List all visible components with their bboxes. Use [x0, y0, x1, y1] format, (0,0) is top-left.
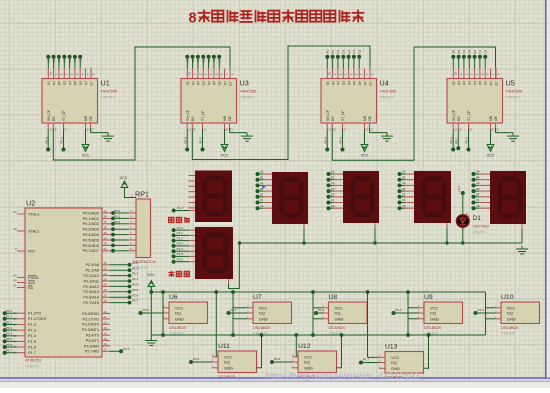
- svg-text:Q5: Q5: [73, 81, 77, 85]
- svg-text:P0.5/AD5: P0.5/AD5: [83, 238, 99, 242]
- svg-text:P2.3: P2.3: [132, 277, 139, 281]
- svg-text:P1.2: P1.2: [177, 236, 184, 240]
- svg-text:P1.0: P1.0: [6, 309, 13, 313]
- svg-text:74HC595: 74HC595: [506, 89, 524, 94]
- svg-text:P0.0: P0.0: [114, 209, 121, 213]
- svg-text:33: 33: [104, 242, 108, 246]
- svg-text:C3: C3: [336, 49, 340, 53]
- svg-text:A1: A1: [260, 170, 264, 174]
- svg-text:GND: GND: [507, 316, 516, 321]
- svg-text:MR: MR: [363, 115, 367, 121]
- svg-text:B1: B1: [260, 175, 264, 179]
- svg-text:25: 25: [104, 283, 108, 287]
- svg-text:15: 15: [454, 72, 458, 76]
- svg-text:GND: GND: [335, 316, 344, 321]
- svg-text:LED-RED: LED-RED: [473, 225, 490, 229]
- svg-text:P2.7/A15: P2.7/A15: [83, 301, 99, 305]
- svg-text:P1.4: P1.4: [478, 308, 485, 312]
- svg-text:DS18B20: DS18B20: [329, 325, 347, 330]
- svg-text:G3: G3: [357, 49, 361, 53]
- svg-text:DQ: DQ: [430, 311, 436, 316]
- svg-text:U4: U4: [380, 79, 389, 88]
- svg-text:P3.1/TXD: P3.1/TXD: [83, 317, 100, 321]
- svg-text:P0.1: P0.1: [114, 215, 121, 219]
- svg-text:P0.4/AD4: P0.4/AD4: [83, 233, 99, 237]
- svg-text:DS18B20: DS18B20: [169, 325, 187, 330]
- svg-text:C1: C1: [260, 181, 264, 185]
- svg-text:P0.0: P0.0: [449, 137, 453, 144]
- svg-text:U13: U13: [385, 344, 398, 351]
- svg-text:RP1: RP1: [135, 190, 149, 199]
- svg-text:Q7': Q7': [494, 81, 498, 86]
- svg-text:P1.6: P1.6: [274, 357, 281, 361]
- svg-text:G1: G1: [260, 204, 264, 208]
- svg-text:B1: B1: [52, 58, 56, 62]
- svg-text:C2: C2: [331, 181, 335, 185]
- svg-text:Q7: Q7: [223, 81, 227, 85]
- svg-text:8: 8: [189, 11, 197, 27]
- svg-text:SH_CP: SH_CP: [326, 109, 330, 121]
- svg-text:U3: U3: [240, 79, 249, 88]
- svg-text:ALE: ALE: [28, 281, 36, 285]
- svg-text:32: 32: [104, 247, 108, 251]
- svg-text:10: 10: [104, 310, 108, 314]
- svg-text:Q7: Q7: [84, 81, 88, 85]
- svg-text:D1: D1: [473, 215, 482, 222]
- svg-text:U7: U7: [253, 294, 262, 301]
- svg-text:U8: U8: [329, 294, 338, 301]
- svg-text:14: 14: [459, 128, 463, 131]
- svg-text:15: 15: [104, 337, 108, 341]
- svg-text:Q2: Q2: [462, 81, 466, 85]
- svg-text:13: 13: [496, 128, 500, 131]
- svg-text:D4: D4: [476, 187, 480, 191]
- svg-text:24: 24: [104, 277, 108, 281]
- svg-text:<TEXT>: <TEXT>: [240, 95, 256, 100]
- svg-text:DS: DS: [331, 116, 335, 121]
- svg-text:Q4: Q4: [473, 81, 477, 85]
- svg-text:P1.0: P1.0: [177, 226, 184, 230]
- svg-text:27: 27: [104, 294, 108, 298]
- svg-text:36: 36: [104, 226, 108, 230]
- svg-text:10: 10: [225, 128, 229, 131]
- svg-text:P1.6: P1.6: [28, 345, 36, 349]
- svg-text:DS18B20: DS18B20: [501, 325, 519, 330]
- svg-text:F4: F4: [478, 50, 482, 54]
- svg-text:11: 11: [327, 128, 331, 131]
- svg-text:P2.5/A13: P2.5/A13: [83, 290, 99, 294]
- svg-text:12: 12: [64, 128, 68, 131]
- svg-text:VCC: VCC: [487, 154, 495, 158]
- svg-text:U6: U6: [169, 294, 178, 301]
- svg-text:C4: C4: [462, 49, 466, 53]
- svg-text:D3: D3: [342, 49, 346, 53]
- svg-text:P1.4: P1.4: [6, 332, 13, 336]
- svg-text:74HC595: 74HC595: [380, 89, 398, 94]
- svg-text:P1.5: P1.5: [193, 357, 200, 361]
- svg-text:30: 30: [13, 279, 17, 283]
- svg-text:D1: D1: [63, 58, 67, 62]
- svg-text:P0.2: P0.2: [60, 137, 64, 144]
- svg-text:U9: U9: [424, 294, 433, 301]
- svg-text:26: 26: [104, 288, 108, 292]
- svg-text:ST_CP: ST_CP: [341, 110, 345, 121]
- svg-text:AT89C52: AT89C52: [25, 358, 42, 363]
- svg-text:23: 23: [104, 272, 108, 276]
- svg-text:Q7: Q7: [489, 81, 493, 85]
- svg-text:P1.5: P1.5: [28, 340, 36, 344]
- svg-text:<TEXT>: <TEXT>: [133, 265, 149, 270]
- svg-text:P2.6/A14: P2.6/A14: [83, 296, 99, 300]
- svg-text:C1: C1: [57, 58, 61, 62]
- svg-text:Q5: Q5: [478, 81, 482, 85]
- svg-text:XTAL2: XTAL2: [28, 229, 39, 233]
- svg-text:B2: B2: [191, 58, 195, 62]
- svg-text:Q6: Q6: [358, 81, 362, 85]
- svg-text:18: 18: [13, 227, 17, 231]
- svg-text:P0.7/AD7: P0.7/AD7: [83, 249, 99, 253]
- svg-text:VCC: VCC: [120, 176, 128, 180]
- svg-text:MR: MR: [84, 115, 88, 121]
- svg-text:P2.4/A12: P2.4/A12: [83, 285, 99, 289]
- svg-text:12: 12: [104, 321, 108, 325]
- svg-text:VCC: VCC: [361, 154, 369, 158]
- svg-text:GND: GND: [304, 365, 313, 370]
- svg-text:<TEXT>: <TEXT>: [169, 331, 185, 336]
- svg-text:E1: E1: [68, 58, 72, 62]
- svg-text:P1.7: P1.7: [28, 351, 36, 355]
- svg-text:P2.1/A9: P2.1/A9: [85, 269, 99, 273]
- svg-text:A4: A4: [476, 170, 480, 174]
- svg-text:EA: EA: [28, 286, 34, 290]
- svg-text:Q4: Q4: [207, 81, 211, 85]
- svg-text:<TEXT>: <TEXT>: [506, 95, 522, 100]
- svg-text:D2: D2: [202, 58, 206, 62]
- svg-text:31: 31: [13, 284, 17, 288]
- svg-text:15: 15: [188, 72, 192, 76]
- svg-text:14: 14: [104, 331, 108, 335]
- svg-text:P1.7: P1.7: [363, 357, 370, 361]
- svg-text:D4: D4: [468, 49, 472, 53]
- svg-text:E2: E2: [331, 193, 335, 197]
- svg-text:P1.0: P1.0: [143, 308, 150, 312]
- svg-text:C4: C4: [476, 181, 480, 185]
- svg-text:P1.0/T2: P1.0/T2: [28, 312, 41, 316]
- svg-text:10: 10: [365, 128, 369, 131]
- svg-text:P1.5: P1.5: [6, 337, 13, 341]
- svg-text:GND: GND: [430, 316, 439, 321]
- svg-text:<TEXT>: <TEXT>: [380, 95, 396, 100]
- svg-text:https:⁄⁄blog.csdn.net⁄weixin_4: https:⁄⁄blog.csdn.net⁄weixin_44212493: [266, 371, 419, 381]
- svg-text:P0.6/AD6: P0.6/AD6: [83, 244, 99, 248]
- svg-text:74HC595: 74HC595: [101, 89, 119, 94]
- svg-text:DQ: DQ: [175, 311, 181, 316]
- svg-text:DQ: DQ: [335, 311, 341, 316]
- svg-text:17: 17: [104, 348, 108, 352]
- svg-text:F1: F1: [73, 58, 77, 62]
- svg-text:11: 11: [104, 315, 107, 319]
- svg-text:E3: E3: [402, 193, 406, 197]
- svg-text:29: 29: [13, 274, 17, 278]
- svg-text:P1.2: P1.2: [6, 320, 13, 324]
- svg-text:16: 16: [104, 342, 108, 346]
- svg-text:14: 14: [193, 128, 197, 131]
- svg-text:P0.2: P0.2: [339, 137, 343, 144]
- svg-text:E4: E4: [476, 193, 480, 197]
- svg-text:P0.1: P0.1: [455, 137, 459, 144]
- svg-text:Q3: Q3: [202, 81, 206, 85]
- svg-text:12: 12: [203, 128, 207, 131]
- svg-text:P3.2/INT0: P3.2/INT0: [82, 323, 99, 327]
- svg-text:E2: E2: [207, 58, 211, 62]
- svg-text:GND: GND: [224, 365, 233, 370]
- svg-text:P2.5: P2.5: [132, 288, 139, 292]
- svg-text:Q7: Q7: [363, 81, 367, 85]
- svg-text:DQ: DQ: [507, 311, 513, 316]
- svg-text:ST_CP: ST_CP: [467, 110, 471, 121]
- svg-text:OE: OE: [89, 115, 93, 121]
- svg-text:Q6: Q6: [218, 81, 222, 85]
- svg-text:SH_CP: SH_CP: [47, 109, 51, 121]
- svg-text:Q0: Q0: [452, 81, 456, 85]
- svg-text:P2.7: P2.7: [132, 299, 139, 303]
- svg-text:Q0: Q0: [47, 81, 51, 85]
- svg-text:VCC: VCC: [221, 154, 229, 158]
- svg-text:VCC: VCC: [147, 273, 155, 277]
- svg-text:Q2: Q2: [196, 81, 200, 85]
- svg-text:PSEN: PSEN: [28, 276, 39, 280]
- svg-text:<TEXT>: <TEXT>: [473, 231, 488, 235]
- svg-text:G1: G1: [78, 58, 82, 62]
- svg-text:A2: A2: [331, 170, 335, 174]
- svg-text:E4: E4: [473, 50, 477, 54]
- svg-text:11: 11: [453, 128, 457, 131]
- svg-text:C3: C3: [402, 181, 406, 185]
- svg-text:P0.1/AD1: P0.1/AD1: [83, 217, 99, 221]
- svg-text:Q7': Q7': [368, 81, 372, 86]
- svg-text:22: 22: [104, 267, 108, 271]
- svg-text:B3: B3: [331, 50, 335, 54]
- svg-text:11: 11: [187, 128, 191, 131]
- svg-text:G4: G4: [483, 49, 487, 53]
- svg-text:DS18B20: DS18B20: [253, 325, 271, 330]
- svg-text:P2.3/A11: P2.3/A11: [84, 279, 99, 283]
- svg-text:P3.7: P3.7: [457, 185, 461, 191]
- svg-text:19: 19: [13, 210, 17, 214]
- svg-text:P1.6: P1.6: [177, 257, 184, 261]
- svg-text:Q7': Q7': [228, 81, 232, 86]
- svg-text:37: 37: [104, 220, 108, 224]
- svg-text:RST: RST: [28, 249, 36, 253]
- svg-text:B2: B2: [331, 175, 335, 179]
- svg-text:Q7': Q7': [89, 81, 93, 86]
- svg-text:13: 13: [370, 128, 374, 131]
- svg-text:U10: U10: [501, 294, 514, 301]
- svg-text:U5: U5: [506, 79, 515, 88]
- svg-text:P0.3/AD3: P0.3/AD3: [83, 228, 99, 232]
- svg-text:13: 13: [104, 326, 108, 330]
- svg-text:Q4: Q4: [347, 81, 351, 85]
- svg-text:D3: D3: [402, 187, 406, 191]
- svg-text:DS: DS: [52, 116, 56, 121]
- svg-text:P2.4: P2.4: [132, 283, 139, 287]
- svg-text:Q4: Q4: [68, 81, 72, 85]
- svg-text:15: 15: [49, 72, 53, 76]
- svg-text:<TEXT>: <TEXT>: [101, 95, 117, 100]
- svg-text:38: 38: [104, 215, 108, 219]
- svg-text:DS18B20: DS18B20: [424, 325, 442, 330]
- svg-text:35: 35: [104, 231, 108, 235]
- svg-text:Q0: Q0: [326, 81, 330, 85]
- svg-text:14: 14: [54, 128, 58, 131]
- svg-text:11: 11: [48, 128, 52, 131]
- svg-text:DS: DS: [457, 116, 461, 121]
- svg-text:<TEXT>: <TEXT>: [424, 331, 440, 336]
- svg-text:P1.6: P1.6: [6, 343, 13, 347]
- svg-text:RESPACK-8: RESPACK-8: [133, 259, 156, 264]
- svg-text:13: 13: [230, 128, 234, 131]
- svg-text:A1: A1: [47, 58, 51, 62]
- svg-text:XTAL1: XTAL1: [28, 212, 39, 216]
- svg-text:OE: OE: [228, 115, 232, 121]
- svg-text:C2: C2: [196, 58, 200, 62]
- svg-text:Q2: Q2: [57, 81, 61, 85]
- svg-text:E3: E3: [347, 50, 351, 54]
- svg-text:Q3: Q3: [342, 81, 346, 85]
- svg-text:DQ: DQ: [304, 360, 310, 365]
- svg-text:10: 10: [86, 128, 90, 131]
- svg-text:P1.4: P1.4: [177, 247, 184, 251]
- svg-text:SH_CP: SH_CP: [452, 109, 456, 121]
- svg-text:P1.1: P1.1: [231, 308, 238, 312]
- svg-text:P1.7: P1.7: [177, 206, 184, 210]
- svg-text:F2: F2: [331, 198, 335, 202]
- svg-text:SH_CP: SH_CP: [186, 109, 190, 121]
- svg-text:DQ: DQ: [259, 311, 265, 316]
- svg-text:F4: F4: [476, 198, 480, 202]
- svg-text:U12: U12: [298, 343, 311, 350]
- svg-text:12: 12: [469, 128, 473, 131]
- svg-text:OE: OE: [368, 115, 372, 121]
- svg-text:G2: G2: [217, 58, 221, 62]
- svg-text:10: 10: [491, 128, 495, 131]
- svg-text:P3.5/T1: P3.5/T1: [86, 339, 99, 343]
- svg-text:A4: A4: [452, 50, 456, 54]
- svg-text:Q6: Q6: [484, 81, 488, 85]
- svg-text:F2: F2: [212, 58, 216, 62]
- svg-text:P1.3: P1.3: [396, 308, 403, 312]
- svg-text:G2: G2: [331, 204, 335, 208]
- svg-text:P0.0/AD0: P0.0/AD0: [83, 211, 99, 215]
- svg-text:Q1: Q1: [331, 81, 335, 85]
- svg-text:P0.0: P0.0: [183, 137, 187, 144]
- svg-text:G3: G3: [402, 204, 406, 208]
- svg-text:Q1: Q1: [52, 81, 56, 85]
- svg-text:P1.3: P1.3: [6, 326, 13, 330]
- svg-text:Q0: Q0: [186, 81, 190, 85]
- svg-text:DQ: DQ: [224, 360, 230, 365]
- svg-text:P1.2: P1.2: [318, 308, 325, 312]
- svg-text:P3.7: P3.7: [123, 347, 130, 351]
- svg-text:P3.6/WR: P3.6/WR: [84, 344, 99, 348]
- svg-text:U2: U2: [26, 199, 35, 208]
- svg-text:A3: A3: [326, 50, 330, 54]
- svg-text:Q3: Q3: [468, 81, 472, 85]
- svg-text:<TEXT>: <TEXT>: [501, 331, 517, 336]
- svg-text:P1.4: P1.4: [28, 334, 36, 338]
- svg-text:DQ: DQ: [391, 360, 397, 365]
- svg-text:P0.2/AD2: P0.2/AD2: [83, 222, 99, 226]
- svg-text:B3: B3: [402, 175, 406, 179]
- svg-text:P3.4/T0: P3.4/T0: [86, 334, 99, 338]
- svg-text:U11: U11: [218, 343, 230, 350]
- svg-text:28: 28: [104, 299, 108, 303]
- svg-text:OE: OE: [494, 115, 498, 121]
- svg-text:P0.2: P0.2: [114, 220, 121, 224]
- svg-text:DS: DS: [191, 116, 195, 121]
- svg-text:Q5: Q5: [212, 81, 216, 85]
- svg-text:Q3: Q3: [63, 81, 67, 85]
- svg-text:Q1: Q1: [457, 81, 461, 85]
- svg-text:P1.1/T2EX: P1.1/T2EX: [28, 317, 47, 321]
- svg-text:A3: A3: [402, 170, 406, 174]
- svg-text:Q2: Q2: [336, 81, 340, 85]
- svg-text:P1.7: P1.7: [6, 349, 13, 353]
- svg-text:MR: MR: [489, 115, 493, 121]
- svg-text:A2: A2: [186, 58, 190, 62]
- svg-text:E1: E1: [260, 193, 264, 197]
- svg-text:G4: G4: [476, 204, 480, 208]
- svg-text:P1.1: P1.1: [6, 315, 13, 319]
- svg-text:MR: MR: [223, 115, 227, 121]
- svg-text:B4: B4: [457, 50, 461, 54]
- svg-text:P2.2: P2.2: [132, 272, 139, 276]
- svg-text:P0.2: P0.2: [199, 137, 203, 144]
- svg-text:P0.0: P0.0: [44, 137, 48, 144]
- svg-text:P1.3: P1.3: [28, 329, 36, 333]
- svg-text:P3.0/RXD: P3.0/RXD: [82, 312, 99, 316]
- svg-text:VCC: VCC: [82, 154, 90, 158]
- svg-text:D2: D2: [331, 187, 335, 191]
- svg-text:B4: B4: [476, 175, 480, 179]
- svg-text:14: 14: [333, 128, 337, 131]
- svg-text:P1.2: P1.2: [28, 323, 36, 327]
- svg-text:Q5: Q5: [352, 81, 356, 85]
- svg-text:13: 13: [91, 128, 95, 131]
- svg-text:P0.0: P0.0: [323, 137, 327, 144]
- svg-text:Q1: Q1: [191, 81, 195, 85]
- svg-text:ST_CP: ST_CP: [62, 110, 66, 121]
- svg-text:39: 39: [104, 209, 108, 213]
- svg-text:ST_CP: ST_CP: [201, 110, 205, 121]
- svg-text:P1.1: P1.1: [177, 231, 184, 235]
- svg-text:GND: GND: [259, 316, 268, 321]
- svg-text:34: 34: [104, 236, 108, 240]
- svg-text:15: 15: [328, 72, 332, 76]
- svg-text:P1.5: P1.5: [177, 252, 184, 256]
- svg-text:P3.7/RD: P3.7/RD: [85, 350, 100, 354]
- svg-text:P1.3: P1.3: [177, 242, 184, 246]
- svg-text:P2.0/A8: P2.0/A8: [85, 263, 99, 267]
- svg-text:P3.3/INT1: P3.3/INT1: [82, 328, 99, 332]
- svg-text:F3: F3: [352, 50, 356, 54]
- svg-text:U1: U1: [101, 79, 110, 88]
- svg-text:21: 21: [104, 261, 108, 265]
- svg-text:F3: F3: [402, 198, 406, 202]
- svg-text:F1: F1: [260, 198, 264, 202]
- svg-text:GND: GND: [175, 316, 184, 321]
- svg-text:P2.6: P2.6: [132, 293, 139, 297]
